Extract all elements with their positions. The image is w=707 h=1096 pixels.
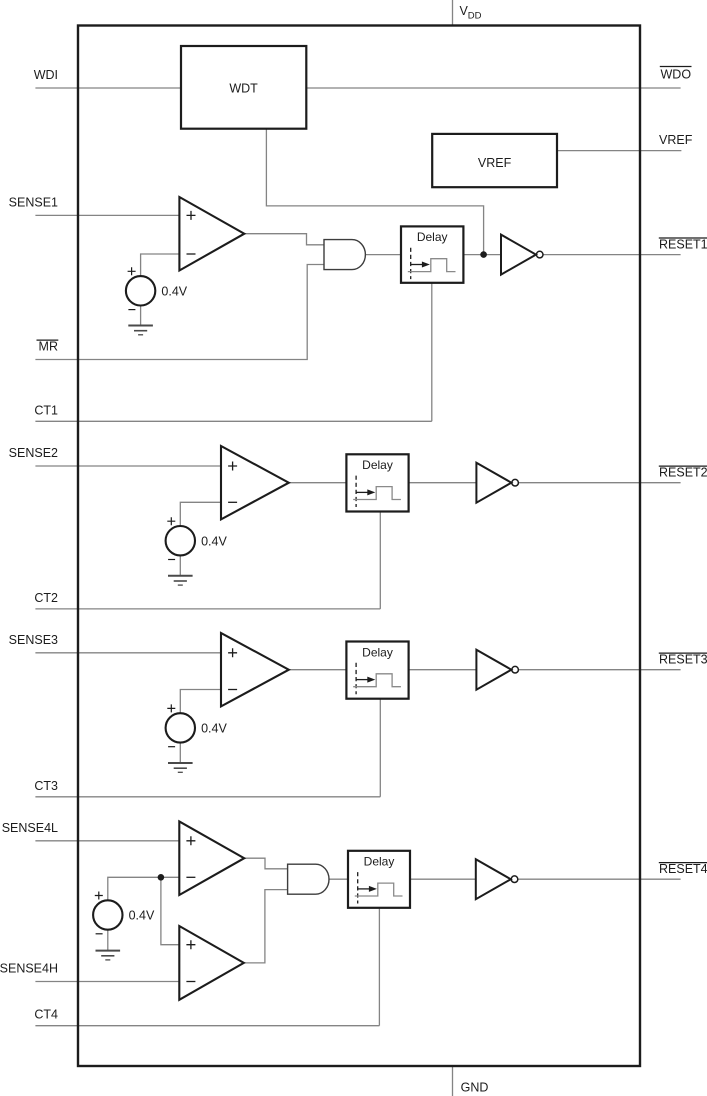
svg-text:0.4V: 0.4V [201, 722, 227, 736]
svg-text:SENSE3: SENSE3 [9, 633, 58, 647]
Delay1 dashed timing line [410, 248, 412, 279]
Delay2 arrow [356, 491, 369, 493]
wire V4 to ground [107, 930, 109, 951]
Delay4 arrow [358, 888, 371, 890]
inverter U10 [476, 859, 518, 899]
overline RESET4 [659, 862, 707, 864]
voltage source V3 0.4V [166, 713, 195, 742]
Delay3 dashed timing line [355, 663, 357, 694]
wire WDI to WDT [35, 87, 181, 89]
WDT block [181, 46, 306, 129]
wire CT4 [35, 1025, 379, 1027]
svg-text:RESET2: RESET2 [659, 466, 707, 480]
svg-text:DD: DD [468, 11, 482, 22]
comparator U6 [221, 633, 289, 706]
chip boundary [78, 26, 640, 1067]
overline RESET3 [659, 652, 707, 654]
svg-text:SENSE4L: SENSE4L [2, 821, 58, 835]
wire V4 to node B and U8 inverting input [108, 877, 180, 900]
wire V3 to ground [179, 743, 181, 763]
Delay3 pulse waveform [353, 674, 401, 687]
ground GND3 [168, 763, 193, 772]
U9 minus input mark [186, 981, 195, 983]
inverter U3 [501, 235, 543, 275]
delay block Delay2 [346, 454, 408, 511]
svg-text:VREF: VREF [478, 156, 512, 170]
overline WDO [660, 66, 692, 68]
ground GND2 [168, 576, 193, 585]
wire Delay3 to inverter U7 [409, 669, 477, 671]
svg-text:Delay: Delay [362, 645, 393, 659]
svg-text:0.4V: 0.4V [129, 909, 155, 923]
delay block Delay1 [401, 226, 463, 282]
svg-text:WDT: WDT [229, 82, 258, 96]
V1 plus mark [128, 267, 136, 275]
wire U8 output to AND2 [244, 858, 287, 869]
svg-text:Delay: Delay [362, 458, 393, 472]
wire V3 to U6 inverting input [180, 690, 221, 714]
comparator U8 [179, 821, 244, 895]
svg-text:GND: GND [461, 1081, 489, 1095]
wire Delay1 to inverter U3 [463, 254, 501, 256]
delay block Delay3 [346, 642, 408, 699]
U2 plus input mark [187, 211, 196, 220]
U6 plus input mark [228, 648, 237, 657]
U8 plus input mark [186, 836, 195, 845]
svg-text:RESET1: RESET1 [659, 238, 707, 252]
wire Delay1 bottom [431, 283, 433, 422]
comparator U2 [179, 197, 244, 271]
V4 plus mark [95, 892, 103, 900]
wire WDT bottom to node A [266, 129, 483, 255]
V2 plus mark [167, 517, 175, 525]
wire V1 to U2 inverting input [141, 254, 180, 276]
V3 minus mark [168, 746, 175, 748]
U8 minus input mark [186, 876, 195, 878]
wire Delay4 to inverter U10 [410, 878, 476, 880]
BLACK OUTLINES [78, 26, 640, 1067]
U2 minus input mark [187, 253, 196, 255]
Delay1 arrow [411, 264, 424, 266]
delay block Delay4 [348, 851, 410, 908]
svg-text:0.4V: 0.4V [161, 284, 187, 298]
inverter U7 [476, 650, 518, 690]
wire SENSE2 to comparator U4 [35, 465, 221, 467]
wire WDT to WDO pin [306, 87, 680, 89]
node B junction dot [158, 874, 165, 881]
wire Delay2 bottom [379, 512, 381, 609]
Delay4 dashed timing line [357, 872, 359, 903]
svg-text:SENSE2: SENSE2 [9, 446, 58, 460]
wire Delay3 bottom [379, 699, 381, 797]
comparator U9 [179, 926, 244, 1000]
wire MR to AND1 [35, 265, 324, 360]
AND gate A1 [324, 240, 365, 270]
svg-text:VREF: VREF [659, 133, 693, 147]
U6 minus input mark [228, 689, 237, 691]
overline RESET1 [659, 237, 707, 239]
ground GND4 [96, 951, 121, 960]
wire U4 output to Delay2 [289, 482, 347, 484]
ground GND1 [128, 326, 153, 335]
Delay2 dashed timing line [355, 476, 357, 507]
wire V2 to ground [179, 555, 181, 575]
svg-text:CT4: CT4 [34, 1008, 58, 1022]
Delay4 pulse waveform [355, 883, 403, 896]
svg-text:RESET3: RESET3 [659, 653, 707, 667]
wire U5 to RESET2 pin [519, 482, 681, 484]
wire node B to U9 noninverting input [161, 877, 179, 944]
overline MR [37, 339, 59, 341]
wire SENSE3 to comparator U6 [35, 652, 221, 654]
U4 minus input mark [228, 501, 237, 503]
wire U6 output to Delay3 [289, 669, 347, 671]
wire U3 to RESET1 pin [543, 254, 680, 256]
voltage source V2 0.4V [166, 526, 195, 555]
svg-text:CT3: CT3 [34, 779, 58, 793]
svg-text:RESET4: RESET4 [659, 862, 707, 876]
comparator U4 [221, 446, 289, 519]
wire GND stub [452, 1066, 454, 1096]
svg-text:WDO: WDO [661, 68, 692, 82]
wire Delay4 bottom [378, 908, 380, 1026]
wire CT1 [35, 420, 431, 422]
svg-text:MR: MR [39, 340, 58, 354]
inverter U5 [476, 463, 518, 503]
wire CT3 [35, 796, 380, 798]
V3 plus mark [167, 704, 175, 712]
wire U9 output to AND2 [244, 890, 288, 963]
overline RESET2 [659, 465, 707, 467]
U9 plus input mark [186, 940, 195, 949]
node A junction dot [480, 251, 487, 258]
V1 minus mark [128, 309, 135, 311]
wire VDD stub [452, 0, 454, 26]
AND gate A2 [288, 864, 329, 894]
V4 minus mark [96, 933, 103, 935]
svg-text:0.4V: 0.4V [201, 534, 227, 548]
wire SENSE1 to comparator U2 [35, 214, 179, 216]
wire SENSE4L to comparator U8 [35, 840, 179, 842]
svg-text:CT2: CT2 [34, 591, 58, 605]
U4 plus input mark [228, 462, 237, 471]
wire SENSE4H to comparator U9 [35, 981, 179, 983]
wire V2 to U4 inverting input [180, 502, 221, 526]
wire U2 output to AND1 [244, 234, 324, 245]
svg-text:Delay: Delay [364, 855, 395, 869]
voltage source V1 0.4V [126, 276, 155, 305]
wire Delay2 to inverter U5 [409, 482, 477, 484]
wire U10 to RESET4 pin [518, 878, 681, 880]
svg-text:WDI: WDI [34, 68, 58, 82]
Delay3 arrow [356, 679, 369, 681]
svg-text:Delay: Delay [417, 230, 448, 244]
voltage source V4 0.4V [93, 900, 122, 929]
wire AND2 to Delay4 [329, 878, 348, 880]
wire AND1 to Delay1 [365, 254, 401, 256]
Delay2 pulse waveform [353, 487, 401, 500]
Delay1 pulse waveform [408, 259, 456, 272]
wire VREF box to VREF pin [557, 150, 681, 152]
wire CT2 [35, 608, 380, 610]
svg-text:SENSE1: SENSE1 [9, 195, 58, 209]
svg-text:SENSE4H: SENSE4H [0, 962, 58, 976]
V2 minus mark [168, 559, 175, 561]
wire U7 to RESET3 pin [519, 669, 681, 671]
svg-text:CT1: CT1 [34, 403, 58, 417]
VREF block [432, 134, 557, 187]
wire V1 to ground [140, 306, 142, 326]
